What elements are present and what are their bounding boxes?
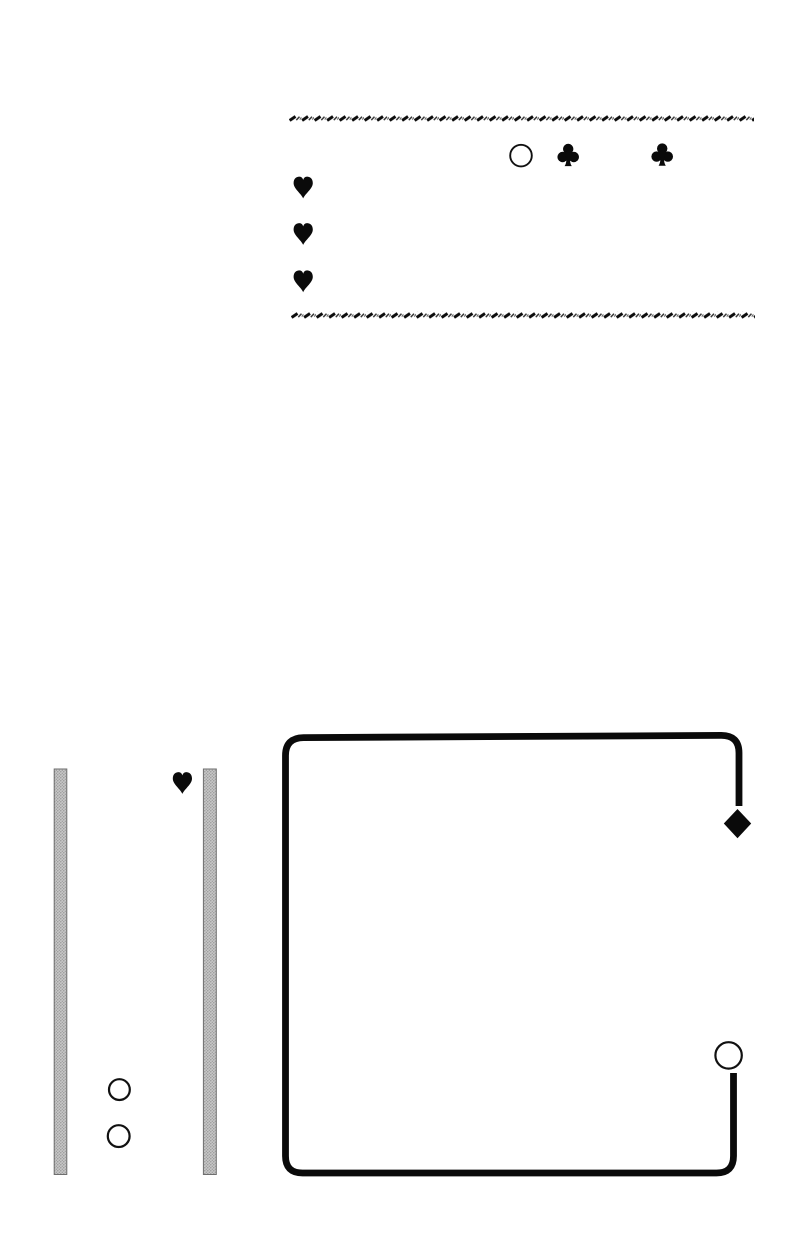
small circle 1 bbox=[109, 1079, 130, 1100]
diamond symbol on border bbox=[724, 809, 751, 838]
heart symbol 3 bbox=[294, 270, 313, 292]
circle node on border bbox=[715, 1042, 741, 1068]
heart symbol 1 bbox=[294, 177, 313, 199]
right gray bar bbox=[203, 769, 216, 1175]
club symbol 1 bbox=[557, 144, 579, 166]
small circle 2 bbox=[108, 1125, 130, 1147]
club symbol 2 bbox=[651, 143, 673, 165]
bottom dashed rule bbox=[291, 312, 755, 319]
top dashed rule bbox=[289, 115, 754, 122]
left gray bar bbox=[54, 769, 67, 1175]
rounded border (open at right) bbox=[286, 735, 740, 1173]
heart symbol 2 bbox=[294, 223, 313, 245]
heart symbol 4 bbox=[173, 772, 192, 794]
circle marker in bid row bbox=[510, 145, 532, 167]
